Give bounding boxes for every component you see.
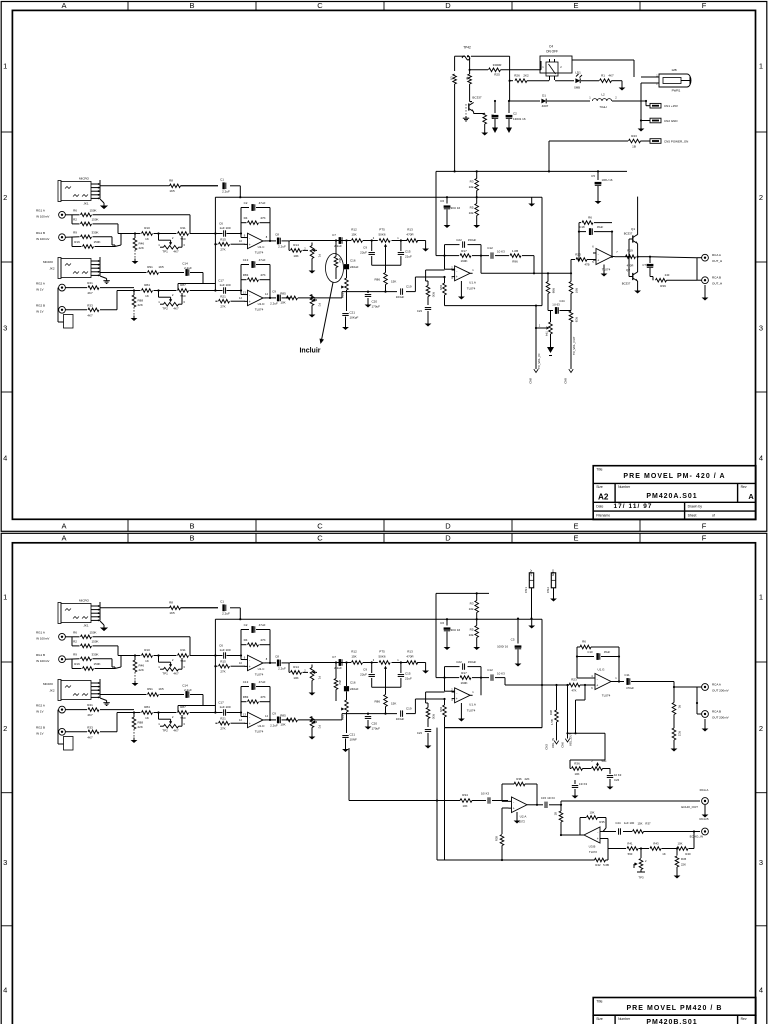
resistor R26 2K2 (514, 74, 549, 83)
svg-text:4K7: 4K7 (87, 713, 93, 717)
wire pot wiper down sheet1 (385, 249, 387, 271)
svg-text:C23: C23 (417, 309, 423, 313)
svg-text:3: 3 (3, 858, 7, 867)
resistor R43 (549, 134, 650, 149)
resistor R91 1K5 sheet1 (147, 265, 164, 274)
trimpot TP3 sheet2 (634, 849, 647, 880)
svg-text:C6: C6 (440, 199, 444, 203)
svg-text:F: F (702, 1, 707, 10)
svg-text:RG1 B: RG1 B (36, 231, 45, 235)
svg-text:-: - (598, 252, 599, 256)
svg-text:D: D (445, 522, 451, 531)
resistor R30 sheet1 (426, 281, 436, 305)
svg-text:Rev: Rev (741, 1017, 747, 1021)
resistor R13 470R sheet1 (406, 228, 417, 243)
wire echo input row sheet2 (472, 800, 508, 802)
svg-text:10KU 16: 10KU 16 (602, 178, 613, 182)
feedback cap C13 47uF sheet1 (241, 258, 270, 268)
svg-text:2.2uF: 2.2uF (270, 301, 278, 305)
svg-text:R1: R1 (678, 705, 682, 709)
svg-text:150K: 150K (91, 218, 98, 222)
wire C1 to rail sheet2 (215, 608, 542, 621)
feedback cap 45uF sheet2 (577, 650, 619, 660)
resistor R33 4K7 sheet2 (66, 725, 118, 739)
capacitor C7 2.2uF output stage2 sheet1 (265, 289, 290, 305)
svg-text:R1: R1 (601, 74, 605, 78)
svg-text:R12: R12 (351, 228, 357, 232)
svg-text:R37: R37 (645, 822, 651, 826)
capacitor C6 30U16 sheet1 (440, 196, 460, 222)
feedback wires U1.C sheet2 (240, 630, 271, 665)
svg-text:U1.C: U1.C (258, 667, 266, 671)
resistor R86 15K sheet1 (374, 267, 396, 292)
ground below U1.B (601, 265, 608, 277)
svg-text:4: 4 (759, 986, 763, 995)
svg-text:R30: R30 (432, 714, 436, 720)
svg-text:C9: C9 (272, 711, 276, 715)
ground below R45 sheet2 (674, 873, 681, 879)
op-amp U1.G TL074 sheet2 (591, 668, 617, 698)
ground below U1.A sheet2 (458, 703, 465, 722)
svg-text:TL074: TL074 (467, 708, 476, 712)
ground below volume pot P2 sheet2 (309, 734, 316, 740)
svg-text:R12: R12 (351, 650, 357, 654)
ground below C21 sheet1 (342, 325, 349, 331)
resistor R12 15K sheet1 (351, 228, 362, 243)
svg-text:U1.D: U1.D (258, 302, 266, 306)
svg-text:240uF: 240uF (350, 687, 359, 691)
svg-text:R25: R25 (494, 72, 500, 76)
wire stage2 row sheet2 (117, 711, 242, 731)
capacitor C17 1uF 100 sheet1 (218, 279, 231, 294)
feedback verticals U1.A sheet1 (443, 245, 482, 274)
svg-text:47K: 47K (260, 216, 265, 220)
resistor R39 240 (650, 273, 697, 288)
svg-text:1: 1 (3, 593, 7, 602)
capacitor C21 sheet1 (342, 311, 358, 325)
svg-text:4K7: 4K7 (608, 74, 614, 78)
op-amp U1.A TL074 sheet2 (451, 688, 476, 713)
capacitor C21 sheet2 (342, 733, 357, 747)
svg-text:Number: Number (618, 485, 631, 489)
svg-text:47K: 47K (260, 638, 265, 642)
svg-text:C17: C17 (218, 279, 224, 283)
title block sheet B: PRE MOVEL PM420/B, PM420B.S01 (cut off) (593, 998, 756, 1026)
svg-text:10KpF: 10KpF (350, 316, 359, 320)
svg-text:R43: R43 (653, 842, 659, 846)
capacitor C20 170uF sheet1 (365, 292, 380, 309)
svg-text:47K: 47K (260, 695, 265, 699)
wire switch to R26 (509, 80, 550, 82)
svg-text:15K: 15K (391, 702, 396, 706)
svg-text:4K7: 4K7 (87, 735, 93, 739)
svg-text:CN5 POWER_ON: CN5 POWER_ON (664, 140, 688, 144)
svg-text:TP1: TP1 (162, 671, 168, 675)
svg-text:R86: R86 (374, 278, 380, 282)
svg-text:R85: R85 (280, 291, 286, 295)
connector CN9 TO_VOL_OUT (564, 336, 577, 383)
svg-text:4K7: 4K7 (173, 249, 179, 253)
wire U3.B output left sheet2 (560, 834, 582, 836)
svg-text:U1.A: U1.A (469, 702, 476, 706)
resistor R2 150K sheet1 (72, 215, 118, 226)
resistor R39 sheet2 (495, 830, 504, 860)
svg-text:D: D (445, 534, 451, 543)
svg-text:R84: R84 (144, 283, 150, 287)
capacitor C6 30U16 sheet2 (440, 618, 460, 644)
svg-text:1uF 100: 1uF 100 (624, 821, 635, 825)
connector CN6 VOL_OUT sheet2 (561, 733, 573, 748)
svg-text:C12: C12 (487, 246, 493, 250)
svg-text:A2: A2 (598, 492, 609, 501)
svg-text:Q2: Q2 (626, 268, 630, 272)
svg-text:R30: R30 (432, 292, 436, 298)
svg-text:1K5: 1K5 (169, 189, 175, 193)
svg-text:10 K3: 10 K3 (497, 250, 505, 254)
RCA jack B OUT 200mV sheet2 (702, 710, 729, 720)
svg-text:B: B (189, 522, 194, 531)
svg-text:22K: 22K (139, 246, 144, 250)
svg-text:VOL_OUT: VOL_OUT (569, 733, 573, 746)
svg-text:TL074: TL074 (467, 286, 476, 290)
ground right of R13 sheet2 (422, 663, 429, 674)
resistor R15 27K sheet1 (215, 238, 245, 252)
svg-text:1: 1 (759, 593, 763, 602)
resistor R3 10k sheet1 (469, 171, 479, 198)
resistor R38 1.5B sheet2 (549, 685, 558, 741)
svg-text:2.2uF: 2.2uF (334, 666, 342, 670)
svg-text:TL072: TL072 (589, 850, 597, 854)
svg-text:10K: 10K (678, 842, 683, 846)
svg-text:U5: U5 (450, 76, 454, 80)
power distribution box top bus sheet1 (436, 170, 627, 172)
connector CN8 TO_VOL_IN (529, 354, 542, 384)
op-amp U3.B TL072 sheet2 (582, 827, 604, 854)
wire stage1 row sheet2 (121, 654, 242, 656)
wire mic bus sheet2 (100, 607, 240, 609)
svg-text:TO_VOL_IN: TO_VOL_IN (537, 354, 541, 369)
wire vertical feed sheet1 (214, 197, 216, 290)
wire mid rail sheet2 (342, 699, 445, 715)
svg-text:C6: C6 (219, 644, 223, 648)
svg-text:50K: 50K (602, 759, 607, 763)
capacitor C3 2.2uF output sheet1 (265, 232, 290, 248)
svg-text:R2: R2 (73, 218, 77, 222)
svg-text:3300R: 3300R (493, 63, 503, 67)
svg-text:C1: C1 (220, 177, 224, 181)
svg-text:C21: C21 (350, 311, 356, 315)
svg-text:10K: 10K (293, 254, 298, 258)
stage2 output line sheet2 (286, 714, 342, 721)
svg-text:U1.G: U1.G (597, 668, 605, 672)
svg-text:22K: 22K (681, 863, 686, 867)
wire push-pull node (637, 244, 639, 272)
box right vertical sheet1 (445, 197, 543, 305)
svg-text:TO_VOL_OUT: TO_VOL_OUT (572, 336, 576, 355)
svg-text:170uF: 170uF (372, 727, 381, 731)
svg-text:PRE MOVEL PM420 / B: PRE MOVEL PM420 / B (626, 1005, 722, 1012)
svg-text:C2: C2 (513, 112, 517, 116)
svg-text:10k: 10k (469, 633, 474, 637)
svg-text:C15: C15 (405, 250, 411, 254)
ground below R5 sheet1 (473, 223, 480, 229)
op-amp U1.D TL074 sheet1 (239, 290, 268, 311)
resistor R42 5.6 sheet2 (595, 849, 610, 867)
transistor Q1 BC337 (624, 197, 638, 244)
svg-text:PM420A.S01: PM420A.S01 (646, 493, 697, 500)
svg-text:10k: 10k (469, 211, 474, 215)
svg-text:E: E (573, 522, 578, 531)
op-amp U1.C TL074 sheet1 (239, 233, 268, 254)
svg-text:190K: 190K (460, 681, 467, 685)
connector CN5 POWER_ON (650, 139, 688, 144)
svg-text:1K: 1K (145, 237, 149, 241)
svg-text:C13: C13 (243, 258, 249, 262)
svg-text:C14: C14 (182, 262, 188, 266)
svg-text:10K: 10K (293, 676, 298, 680)
svg-text:560: 560 (180, 659, 185, 663)
resistor R5 10k sheet2 (469, 619, 479, 644)
svg-text:150uF: 150uF (468, 238, 477, 242)
wire output drop sheet2 (673, 682, 675, 703)
capacitor C24 1uF63 (548, 299, 571, 314)
svg-text:R26: R26 (514, 74, 520, 78)
svg-text:CN2 GND: CN2 GND (664, 119, 678, 123)
capacitor C16 240uF sheet1 (344, 241, 359, 279)
feedback cap C2 47uF sheet1 (241, 201, 270, 211)
svg-text:TP2: TP2 (162, 306, 168, 310)
resistor R84 sheet1 (142, 283, 153, 298)
svg-text:27K: 27K (220, 670, 225, 674)
svg-text:-: - (597, 830, 598, 834)
svg-text:10/ K3: 10/ K3 (547, 796, 555, 800)
highlight ellipse around pot sheet1 (326, 254, 344, 283)
svg-text:R33: R33 (87, 303, 93, 307)
svg-text:R9: R9 (73, 652, 77, 656)
op-amp U1.A TL074 sheet1 (451, 266, 476, 291)
resistor R15 27K sheet2 (215, 660, 245, 674)
stage2 output line sheet1 (286, 292, 342, 299)
ground below RCA B (702, 285, 709, 301)
svg-text:163uF: 163uF (396, 295, 405, 299)
svg-text:17/ 11/ 97: 17/ 11/ 97 (613, 503, 652, 510)
svg-text:R2: R2 (73, 640, 77, 644)
svg-text:C: C (317, 1, 323, 10)
svg-text:+: + (596, 684, 598, 688)
volume pot P1 sheet1 (310, 243, 321, 269)
RCA jack RG1 A sheet1 (36, 209, 65, 219)
svg-text:F: F (702, 534, 707, 543)
svg-text:2.2uF: 2.2uF (278, 666, 286, 670)
connector CN2 GND sheet2 (546, 569, 556, 596)
capacitor C1 2.2uF sheet2 (220, 599, 230, 615)
svg-text:R41: R41 (87, 703, 93, 707)
ground below U2.A sheet2 (514, 812, 521, 824)
resistor R96 (495, 249, 534, 264)
resistor R97 (569, 260, 578, 311)
resistor R9 330K sheet2 (66, 652, 113, 660)
svg-text:RG1 A: RG1 A (36, 631, 45, 635)
svg-text:R83: R83 (243, 695, 249, 699)
resistor R85 10K sheet1 (280, 291, 297, 304)
wire output to jacks (638, 256, 697, 263)
svg-text:10NF: 10NF (350, 738, 358, 742)
wire C12 out sheet2 (495, 678, 569, 687)
resistor R98 (546, 273, 555, 310)
resistor R43 sheet2 (650, 842, 666, 857)
svg-text:C9: C9 (363, 668, 367, 672)
svg-text:IN 1V: IN 1V (36, 732, 44, 736)
resistor R19 470R (626, 249, 636, 268)
capacitor C9 22uF sheet2 (360, 663, 375, 688)
resistor R2 150K sheet2 (72, 637, 118, 648)
svg-text:R40: R40 (685, 852, 691, 856)
svg-text:R16: R16 (74, 240, 80, 244)
svg-text:C21: C21 (350, 733, 356, 737)
op-amp U1.D TL074 sheet2 (239, 712, 268, 733)
svg-text:JK2: JK2 (49, 689, 55, 693)
resistor R45 22K sheet2 (675, 849, 686, 874)
RCA jack ECHO_IN sheet2 (690, 817, 709, 839)
svg-text:470R: 470R (627, 264, 634, 268)
svg-text:1B: 1B (554, 812, 558, 816)
svg-text:Size: Size (596, 1017, 603, 1021)
svg-text:C8: C8 (275, 654, 279, 658)
ground right of JK2 sheet1 (100, 276, 110, 284)
svg-text:OUT 200mV: OUT 200mV (712, 689, 729, 693)
svg-text:47uF: 47uF (259, 623, 266, 627)
svg-text:+: + (513, 807, 515, 811)
wire vertical feed sheet2 (214, 619, 216, 712)
ground below JK1 sheet2 (100, 621, 108, 631)
svg-text:2K2: 2K2 (338, 680, 342, 685)
svg-text:R97: R97 (575, 288, 579, 294)
svg-text:2.2uF: 2.2uF (222, 611, 230, 615)
svg-text:TL074: TL074 (255, 673, 264, 677)
svg-text:C?: C? (642, 263, 646, 267)
svg-text:IN 100mV: IN 100mV (36, 637, 49, 641)
resistor R12 15K sheet2 (351, 650, 362, 665)
svg-text:A: A (61, 534, 66, 543)
arrow to Incluir note sheet1 (320, 283, 334, 345)
svg-text:15K: 15K (638, 822, 643, 826)
svg-text:TL074: TL074 (602, 694, 611, 698)
svg-text:Number: Number (618, 1017, 631, 1021)
svg-text:R4: R4 (244, 638, 248, 642)
svg-text:Rev: Rev (741, 485, 747, 489)
svg-text:PRE MOVEL PM- 420 / A: PRE MOVEL PM- 420 / A (623, 473, 725, 480)
wire pot wiper down sheet2 (385, 671, 387, 693)
zener D2 (450, 74, 457, 84)
feedback verticals sheet2 (576, 647, 620, 683)
input box outline sheet1 (58, 288, 73, 328)
ground below C5 (595, 199, 602, 205)
op-amp U1.B TL074 (592, 245, 618, 272)
svg-text:4K7: 4K7 (173, 728, 179, 732)
svg-text:560: 560 (180, 237, 185, 241)
svg-text:30U 16: 30U 16 (451, 206, 461, 210)
svg-text:ECHO_IN: ECHO_IN (690, 835, 703, 839)
svg-text:R87: R87 (180, 283, 186, 287)
resistor R85 10K sheet2 (280, 713, 297, 726)
svg-text:150K: 150K (93, 662, 100, 666)
resistor R5 10k sheet1 (469, 197, 479, 222)
trimpot TP2 4K7 sheet2 (158, 713, 185, 733)
ground right of R1 (619, 81, 626, 91)
feedback wires U1.C sheet1 (240, 208, 271, 242)
trimpot TP1 4K7 sheet1 (158, 234, 185, 254)
transformer TP42 (462, 46, 471, 61)
svg-text:MICRO: MICRO (43, 260, 54, 264)
svg-text:R36: R36 (574, 762, 580, 766)
svg-text:240: 240 (665, 273, 670, 277)
RCA jack RG2 B sheet2 (36, 726, 65, 736)
capacitor C15 21uF sheet1 (398, 241, 412, 266)
svg-text:4: 4 (759, 454, 763, 463)
svg-text:R23: R23 (571, 678, 577, 682)
resistor R40 10K sheet2 (677, 842, 691, 857)
svg-text:R4: R4 (244, 216, 248, 220)
feedback cap C2 47uF sheet2 (241, 623, 270, 633)
wire input join sheet1 (112, 224, 121, 247)
svg-text:TP3: TP3 (638, 876, 644, 880)
svg-text:2.2uF: 2.2uF (184, 688, 192, 692)
svg-text:1.0B: 1.0B (512, 249, 518, 253)
svg-text:U1.C: U1.C (258, 245, 266, 249)
svg-text:PT5: PT5 (379, 228, 385, 232)
svg-text:C16: C16 (350, 681, 356, 685)
svg-text:+: + (249, 300, 251, 304)
svg-text:CN6: CN6 (561, 742, 565, 748)
capacitor C16 240uF sheet2 (344, 663, 359, 701)
resistor R23 47K sheet2 (568, 678, 595, 693)
svg-text:R15: R15 (220, 660, 226, 664)
svg-text:27K: 27K (220, 727, 225, 731)
ground on rail sheet2 (528, 619, 535, 628)
svg-text:CN8: CN8 (529, 378, 533, 384)
resistor R46 22K sheet1 (133, 234, 144, 259)
RCA jack RG2 A sheet1 (36, 281, 65, 291)
svg-text:22K: 22K (139, 668, 144, 672)
svg-text:47K: 47K (260, 273, 265, 277)
svg-text:2.2uF: 2.2uF (184, 266, 192, 270)
svg-text:R19: R19 (627, 249, 633, 253)
svg-text:-: - (513, 800, 514, 804)
svg-text:JK1: JK1 (83, 624, 89, 628)
svg-text:1B: 1B (632, 145, 636, 149)
volume pot P2 sheet1 (310, 295, 321, 313)
transistor Q4 BC337 (469, 96, 482, 112)
svg-text:150K: 150K (93, 240, 100, 244)
svg-text:+: + (249, 665, 251, 669)
resistor R10 sheet2 (142, 648, 153, 663)
echo box outline sheet2 (437, 728, 595, 862)
svg-text:R6: R6 (588, 216, 592, 220)
svg-text:RCA B: RCA B (712, 276, 721, 280)
svg-text:C10: C10 (587, 650, 593, 654)
svg-text:R3: R3 (470, 602, 474, 606)
svg-text:150K: 150K (91, 640, 98, 644)
svg-text:Date: Date (596, 505, 603, 509)
svg-text:C6: C6 (219, 222, 223, 226)
svg-text:C9: C9 (363, 246, 367, 250)
ground right of R13 sheet1 (422, 241, 429, 252)
capacitor C14 2.2uF sheet1 (182, 262, 192, 276)
svg-text:R11: R11 (180, 648, 186, 652)
feedback verticals output amp (578, 223, 613, 261)
svg-text:Title: Title (596, 468, 602, 472)
ground below JK1 sheet1 (100, 199, 108, 209)
